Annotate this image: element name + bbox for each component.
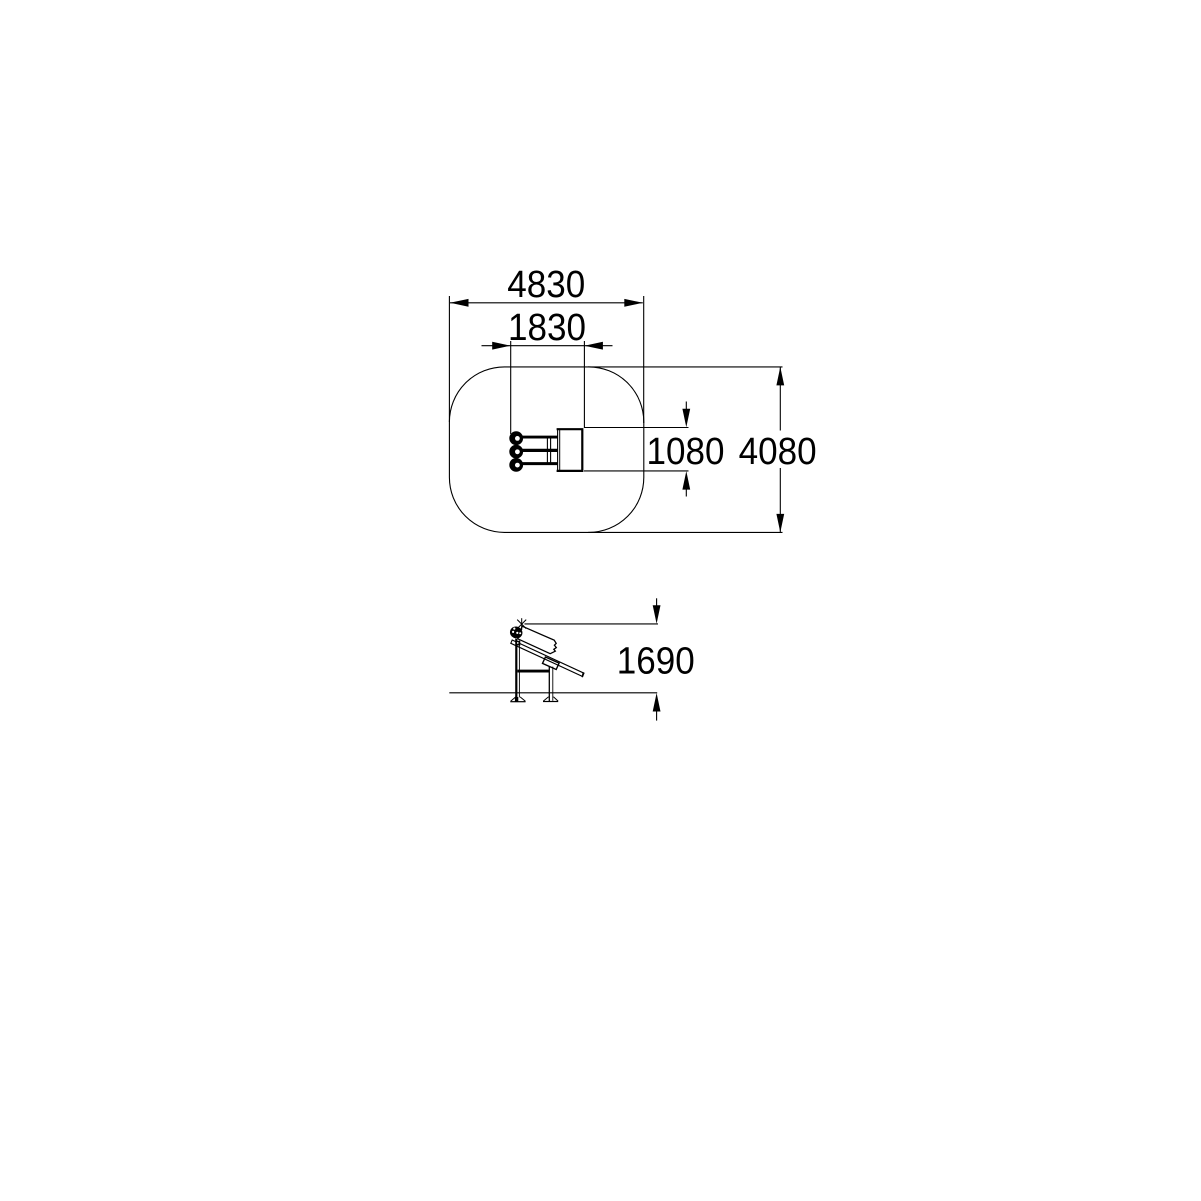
svg-text:1080: 1080 [647, 431, 725, 473]
svg-text:1690: 1690 [617, 641, 695, 683]
svg-text:1830: 1830 [508, 307, 586, 349]
svg-text:4830: 4830 [507, 264, 585, 306]
svg-text:4080: 4080 [739, 431, 817, 473]
